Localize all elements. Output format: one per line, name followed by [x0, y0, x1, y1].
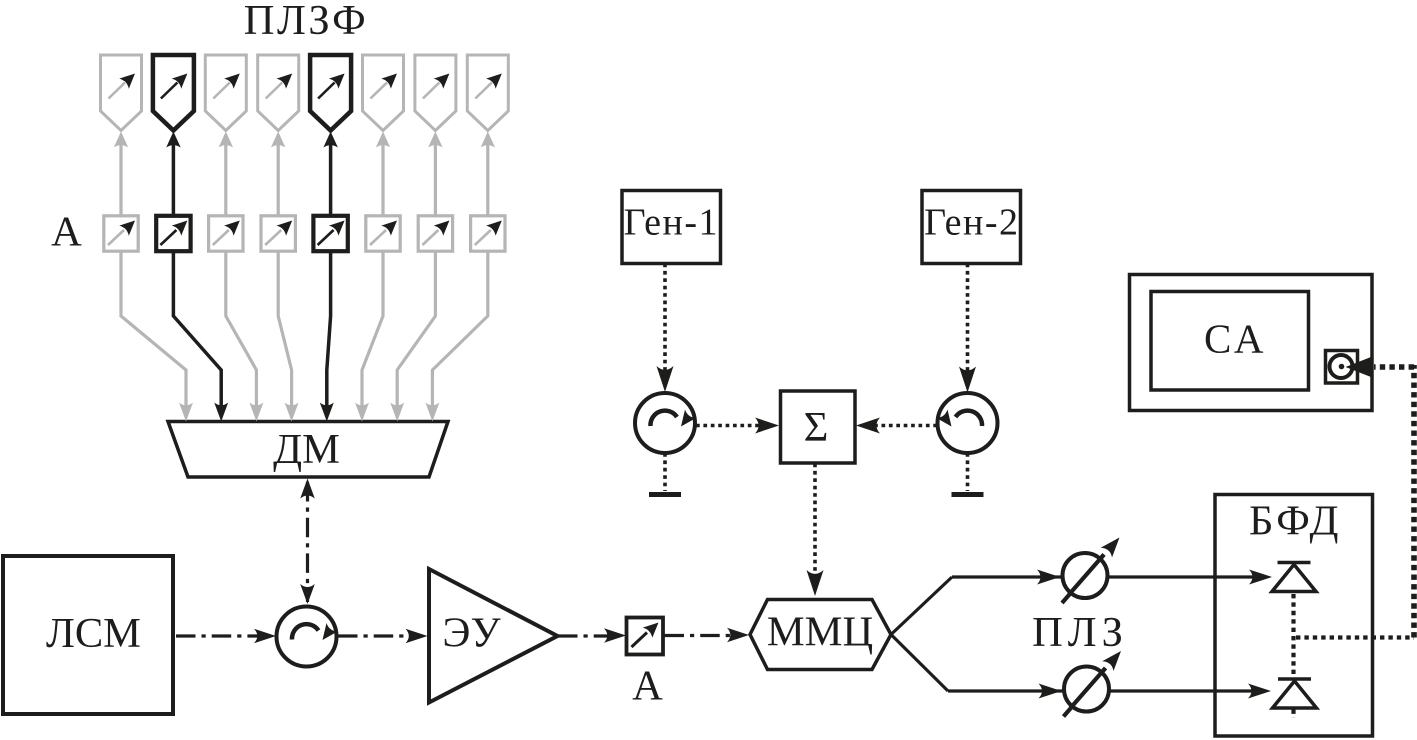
svg-text:ДМ: ДМ: [273, 426, 340, 473]
svg-text:СА: СА: [1204, 316, 1268, 362]
svg-text:ПЛЗ: ПЛЗ: [1032, 609, 1128, 656]
svg-text:ПЛЗФ: ПЛЗФ: [244, 0, 368, 44]
svg-text:Ген-1: Ген-1: [624, 202, 719, 244]
svg-text:ЛСМ: ЛСМ: [46, 610, 141, 657]
svg-text:БФД: БФД: [1249, 498, 1342, 545]
svg-text:ММЦ: ММЦ: [767, 609, 873, 656]
svg-text:ЭУ: ЭУ: [442, 610, 501, 657]
svg-text:А: А: [632, 663, 663, 710]
svg-text:Ген-2: Ген-2: [924, 202, 1019, 244]
svg-text:Σ: Σ: [804, 404, 829, 451]
svg-text:А: А: [51, 209, 82, 256]
